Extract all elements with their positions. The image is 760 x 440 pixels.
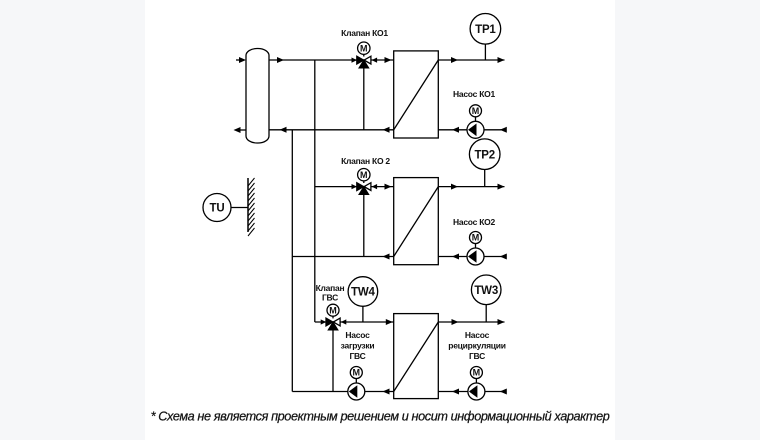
svg-text:ГВС: ГВС — [322, 293, 338, 303]
valve KO1 — [352, 42, 378, 68]
label: Насос загрузки ГВС — [341, 330, 375, 361]
svg-text:M: M — [472, 233, 480, 243]
wire: row1 supply left (tank to HX1) — [269, 57, 394, 63]
svg-text:Насос КО2: Насос КО2 — [453, 217, 496, 227]
svg-text:загрузки: загрузки — [341, 341, 375, 351]
svg-text:M: M — [360, 43, 368, 53]
sensor TP2 — [469, 139, 500, 187]
sensor TP1 — [470, 13, 501, 60]
svg-text:M: M — [472, 106, 480, 116]
valve GVS — [321, 304, 347, 330]
svg-text:TW4: TW4 — [351, 287, 375, 299]
pump KO1 — [467, 105, 484, 139]
svg-text:ГВС: ГВС — [349, 351, 365, 361]
wire: supply riser — [314, 60, 316, 322]
svg-text:Насос: Насос — [465, 330, 490, 340]
wire: row2 supply right — [438, 184, 504, 190]
sensor TU — [203, 194, 248, 222]
svg-text:M: M — [353, 368, 361, 378]
svg-text:M: M — [473, 368, 481, 378]
wire: row3 supply — [315, 319, 394, 325]
svg-text:* Схема не является проектным: * Схема не является проектным решением и… — [151, 410, 610, 424]
wire: row3 return left — [292, 389, 393, 395]
tank — [246, 49, 269, 144]
pump recirculation GVS — [468, 367, 485, 401]
heat exchanger HX1 — [394, 51, 439, 138]
svg-text:ГВС: ГВС — [469, 351, 485, 361]
wire: valve KO2 bypass — [363, 187, 365, 257]
svg-text:M: M — [360, 170, 368, 180]
label: Клапан ГВС — [316, 283, 345, 303]
wire: valve GVS bypass — [332, 322, 334, 392]
wall with hatching — [248, 178, 255, 236]
wire: return riser — [291, 130, 293, 392]
heat exchanger HX3 — [394, 314, 439, 399]
wire: valve KO1 bypass — [363, 60, 365, 130]
svg-text:Клапан: Клапан — [316, 283, 345, 293]
wire: row1 return left (HX1 to tank) — [269, 127, 394, 133]
svg-text:TW3: TW3 — [474, 285, 498, 297]
svg-text:TU: TU — [210, 203, 225, 215]
svg-text:Клапан КО1: Клапан КО1 — [341, 28, 388, 38]
pump KO2 — [467, 232, 484, 266]
wire: tank bottom outlet stub — [234, 127, 247, 133]
wire: row1 supply right (HX1 to output) — [438, 57, 504, 63]
svg-text:рециркуляции: рециркуляции — [448, 341, 505, 351]
heat exchanger HX2 — [394, 178, 439, 265]
wire: row3 return right — [438, 389, 507, 395]
svg-text:TP1: TP1 — [475, 24, 496, 36]
wire: row2 return right — [438, 254, 507, 260]
wire: row2 return left — [292, 254, 393, 260]
wire: row1 return right — [438, 127, 507, 133]
wire: tank top inlet stub — [236, 57, 246, 63]
wire: row2 supply left — [315, 184, 394, 190]
svg-text:Насос КО1: Насос КО1 — [453, 89, 496, 99]
svg-text:Насос: Насос — [345, 330, 370, 340]
label: Насос рециркуляции ГВС — [448, 330, 505, 361]
valve KO2 — [352, 169, 378, 195]
sensor TW4 — [348, 277, 378, 322]
svg-text:M: M — [329, 305, 337, 315]
pump loading GVS — [348, 367, 365, 401]
svg-text:Клапан КО 2: Клапан КО 2 — [341, 156, 390, 166]
sensor TW3 — [471, 275, 501, 322]
svg-text:TP2: TP2 — [474, 149, 495, 161]
wire: row3 supply right — [438, 319, 504, 325]
